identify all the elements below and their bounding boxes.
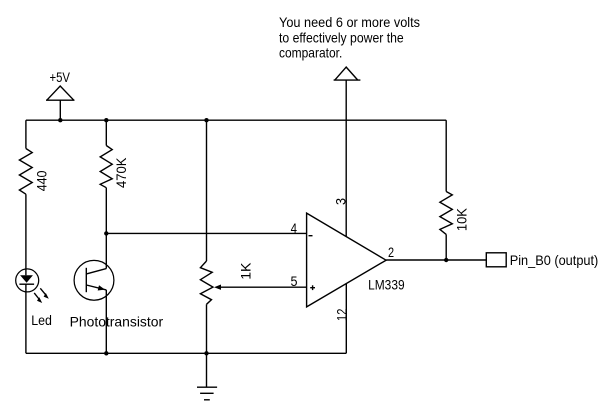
- svg-text:470K: 470K: [114, 157, 129, 188]
- svg-text:12: 12: [334, 309, 349, 321]
- svg-text:to effectively power the: to effectively power the: [279, 31, 404, 46]
- svg-text:+5V: +5V: [50, 70, 71, 85]
- svg-text:440: 440: [34, 170, 49, 191]
- svg-text:3: 3: [334, 198, 349, 205]
- svg-text:comparator.: comparator.: [279, 45, 342, 60]
- svg-text:1K: 1K: [238, 262, 253, 280]
- svg-text:Phototransistor: Phototransistor: [70, 314, 164, 329]
- svg-text:4: 4: [291, 221, 298, 236]
- svg-text:Pin_B0 (output): Pin_B0 (output): [510, 253, 599, 268]
- svg-text:LM339: LM339: [368, 277, 405, 292]
- svg-text:You need 6 or more volts: You need 6 or more volts: [279, 15, 420, 30]
- svg-text:Led: Led: [31, 313, 52, 328]
- svg-text:2: 2: [388, 245, 394, 260]
- svg-text:5: 5: [291, 274, 298, 289]
- svg-text:10K: 10K: [454, 207, 469, 231]
